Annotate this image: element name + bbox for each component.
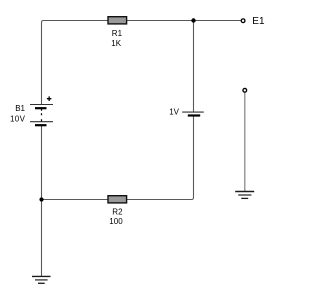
ground right	[235, 192, 254, 199]
wire top horizontal from left corner to terminal E1	[42, 21, 241, 105]
resistor R2	[108, 196, 127, 203]
svg-text:R2: R2	[112, 207, 123, 216]
wire right gray vertical from terminal circle to ground	[244, 93, 246, 191]
wire from 1V source bottom down and left to R2	[42, 116, 194, 200]
battery B1	[30, 96, 53, 125]
svg-text:10V: 10V	[10, 115, 26, 124]
terminal circle right	[243, 88, 247, 92]
svg-text:B1: B1	[15, 104, 25, 113]
wire right vertical from top junction down to 1V source	[193, 21, 195, 113]
junction dot bottom left	[39, 197, 43, 201]
svg-text:R1: R1	[112, 29, 123, 38]
ground bottom left	[32, 276, 51, 283]
resistor R1	[108, 17, 127, 24]
svg-text:100: 100	[109, 217, 123, 226]
svg-text:1V: 1V	[169, 108, 179, 117]
wire left vertical from B1 bottom to ground	[41, 126, 43, 277]
svg-text:E1: E1	[252, 16, 265, 27]
terminal E1 circle	[241, 19, 245, 23]
battery V1 (1V source)	[182, 112, 204, 115]
svg-text:1K: 1K	[111, 39, 121, 48]
junction dot top	[191, 18, 195, 22]
